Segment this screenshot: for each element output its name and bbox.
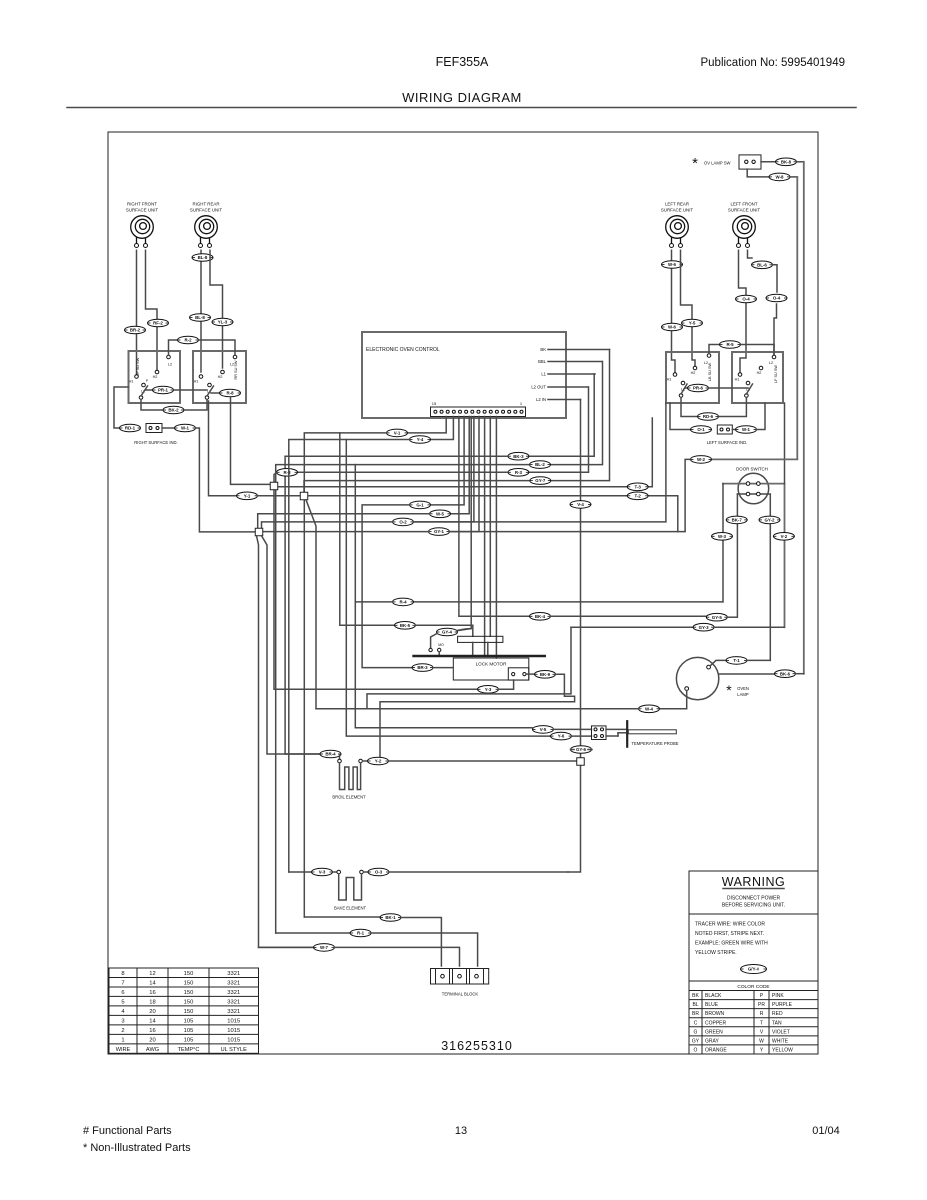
color code divider xyxy=(689,990,818,992)
svg-text:PR-1: PR-1 xyxy=(158,388,169,393)
svg-text:TERMINAL BLOCK: TERMINAL BLOCK xyxy=(442,992,479,997)
svg-text:OVEN: OVEN xyxy=(737,686,749,691)
lf surface switch box xyxy=(732,352,783,403)
wire lock run end xyxy=(728,616,737,618)
svg-text:W-6: W-6 xyxy=(668,262,677,267)
connector V-4 on L2 IN bus xyxy=(570,501,591,509)
wire rf h2 with jog xyxy=(146,250,158,370)
wire oven lamp switch lower to connector W-8 xyxy=(747,169,769,177)
wire bake feed left from V289 xyxy=(289,871,311,873)
svg-text:RD-1: RD-1 xyxy=(125,426,136,431)
connector W-2 run from right bus xyxy=(712,458,797,460)
wire node A right run to T-3 oval xyxy=(278,486,627,488)
connector BK-9 right of motor box xyxy=(535,671,556,679)
rr switch terminals xyxy=(199,375,203,379)
connector RD-1 right surface indicator xyxy=(120,424,141,432)
svg-text:SURFACE UNIT: SURFACE UNIT xyxy=(728,208,761,213)
wire door switch lower contact row to buses xyxy=(737,494,770,660)
svg-text:WARNING: WARNING xyxy=(722,875,785,889)
svg-text:GREEN: GREEN xyxy=(705,1029,723,1035)
svg-text:150: 150 xyxy=(184,999,194,1005)
temperature probe stem xyxy=(628,730,676,734)
svg-text:T-2: T-2 xyxy=(635,493,642,498)
lock motor switch inner box xyxy=(508,668,529,680)
connector W-1 right surface indicator xyxy=(162,427,174,429)
svg-text:Y-5: Y-5 xyxy=(689,321,696,326)
svg-text:BROIL ELEMENT: BROIL ELEMENT xyxy=(332,795,366,800)
svg-text:G/Y-#: G/Y-# xyxy=(748,967,760,972)
connector PR-1 between switch P terminals xyxy=(145,389,152,391)
wire y-1 to node B xyxy=(258,495,301,497)
svg-text:GY-1: GY-1 xyxy=(434,529,445,534)
wire BK run to node B xyxy=(304,481,529,492)
svg-text:13: 13 xyxy=(455,1125,467,1137)
connector BK-3 on L1 run xyxy=(508,452,529,460)
svg-text:RIGHT SURFACE IND.: RIGHT SURFACE IND. xyxy=(134,440,177,445)
svg-text:16: 16 xyxy=(149,1028,155,1034)
connector GY-1 mid run xyxy=(429,528,450,536)
svg-text:COLOR CODE: COLOR CODE xyxy=(737,984,769,990)
svg-text:BLUE: BLUE xyxy=(705,1002,719,1008)
svg-text:EXAMPLE: GREEN WIRE WITH: EXAMPLE: GREEN WIRE WITH xyxy=(695,941,768,947)
svg-text:MO: MO xyxy=(438,643,444,647)
svg-text:BR: BR xyxy=(692,1011,699,1017)
svg-text:12: 12 xyxy=(149,971,155,977)
wire rr L1 down to node row xyxy=(209,401,237,496)
svg-text:SURFACE UNIT: SURFACE UNIT xyxy=(190,208,223,213)
wire gy-4 diagonal to eoc t11 xyxy=(457,629,471,631)
svg-text:BEFORE SERVICING UNIT.: BEFORE SERVICING UNIT. xyxy=(722,903,785,909)
connector BL-8 on rr h1 wire xyxy=(192,254,213,262)
connector V-2 on V784 xyxy=(773,533,794,541)
svg-text:BL-8: BL-8 xyxy=(198,255,208,260)
connector BK-5 lock motor left run xyxy=(395,622,416,630)
wire bk-5 to cam drop xyxy=(416,625,473,636)
wire w-2 left end down to gy-1 run xyxy=(685,459,690,531)
wire lock wrap upper xyxy=(367,627,571,709)
wire lb L2 to lf L2 via connector R-5 xyxy=(709,345,719,354)
svg-text:RED: RED xyxy=(772,1011,783,1017)
wire w-1 to node down xyxy=(196,428,256,532)
connector R-3 on L2 OUT run xyxy=(508,469,529,477)
connector G-1 mid run xyxy=(410,501,431,509)
wire node C left pair down to broil and terminal row xyxy=(257,536,315,948)
diagram border xyxy=(108,132,818,1054)
oven lamp switch terminals xyxy=(745,160,748,163)
connector W-7 on y947 run xyxy=(314,944,335,952)
wire bake right terminal to connector O-3 xyxy=(364,871,368,873)
svg-text:*: * xyxy=(726,682,732,698)
svg-text:SURFACE UNIT: SURFACE UNIT xyxy=(126,208,159,213)
oven lamp body xyxy=(676,657,718,699)
svg-text:R-3: R-3 xyxy=(515,470,523,475)
svg-text:NOTED FIRST, STRIPE NEXT.: NOTED FIRST, STRIPE NEXT. xyxy=(695,931,764,937)
svg-text:L2 IN: L2 IN xyxy=(536,397,546,402)
svg-text:316255310: 316255310 xyxy=(441,1039,513,1053)
wire L2 OUT run middle segment xyxy=(298,471,508,473)
wire eoc t4 down to G-1 run xyxy=(431,417,464,505)
wire y-3 to motor box bottom xyxy=(499,680,514,689)
node B junction square xyxy=(300,492,308,500)
wire probe run upper to box xyxy=(554,728,592,730)
wire G-1 run left and down V362 to motor feed xyxy=(362,505,412,668)
svg-text:# Functional Parts: # Functional Parts xyxy=(83,1125,172,1137)
svg-text:DISCONNECT POWER: DISCONNECT POWER xyxy=(727,896,781,902)
svg-text:BK-2: BK-2 xyxy=(168,408,179,413)
connector O-4 on lf wire xyxy=(736,295,757,303)
bake element terminals xyxy=(337,870,341,874)
wire lock motor run V340 xyxy=(340,433,394,625)
svg-text:1015: 1015 xyxy=(227,1028,240,1034)
wire run y947 from node C wire xyxy=(259,946,315,948)
svg-text:OV LAMP SW: OV LAMP SW xyxy=(704,161,730,166)
lock motor box xyxy=(453,658,529,680)
wire W-5 run to node C xyxy=(258,514,430,528)
svg-text:C: C xyxy=(694,1020,698,1026)
wire r-8 down to node xyxy=(231,397,271,485)
wire lf right terminal jog to connector BL-6 xyxy=(748,250,753,258)
wire motor switch to connector BK-9 xyxy=(526,673,535,675)
svg-text:L2 OUT: L2 OUT xyxy=(531,385,546,390)
svg-text:BLACK: BLACK xyxy=(705,993,722,999)
connector BK-4 on lock run xyxy=(530,613,551,621)
wire Y-4 run to staircase V289 xyxy=(289,440,410,873)
svg-text:R-3: R-3 xyxy=(283,470,291,475)
svg-text:150: 150 xyxy=(184,1009,194,1015)
svg-text:T: T xyxy=(760,1020,763,1026)
connector Y-3 below motor xyxy=(478,686,499,694)
svg-text:UL STYLE: UL STYLE xyxy=(221,1047,247,1053)
connector R-1 on y933 run xyxy=(350,929,371,937)
wire eoc t3 down to lock run right xyxy=(459,417,530,617)
svg-text:BR-4: BR-4 xyxy=(325,752,336,757)
door switch body xyxy=(738,473,769,504)
wire oven lamp right to connector BK-6 xyxy=(719,673,774,675)
svg-text:1015: 1015 xyxy=(227,1037,240,1043)
node A junction square xyxy=(270,482,278,490)
connector GY-5 on lock run xyxy=(706,613,727,621)
wire run y917 from V304 xyxy=(304,916,380,918)
connector R-3b on L2 OUT run xyxy=(277,469,298,477)
wire BBL run to staircase V276 xyxy=(276,465,529,933)
wire gauge table grid xyxy=(109,968,259,1053)
svg-text:O-4: O-4 xyxy=(773,296,781,301)
wire L2 OUT bus down and left xyxy=(530,387,589,472)
wire left ind up to LF box xyxy=(757,403,766,430)
svg-text:W-8: W-8 xyxy=(776,175,785,180)
wire rf P left and down to indicator xyxy=(114,387,129,428)
svg-text:BL: BL xyxy=(692,1002,698,1008)
svg-text:W-6: W-6 xyxy=(668,325,677,330)
svg-text:16: 16 xyxy=(149,990,155,996)
bake element coil xyxy=(339,874,362,900)
lf switch terminals xyxy=(738,373,742,377)
wire GY-1 run right segment to W-2 drop xyxy=(450,531,686,533)
wire connector W-8 to right bus xyxy=(790,176,797,178)
connector Y-4 left of eoc xyxy=(410,436,431,444)
eoc terminal strip pin circles xyxy=(434,410,437,413)
connector W-5 mid run xyxy=(430,510,451,518)
wire br-3 right to motor box xyxy=(433,667,453,669)
svg-text:L1: L1 xyxy=(541,372,546,377)
wire rf h1 vertical xyxy=(136,250,138,374)
svg-text:3321: 3321 xyxy=(227,980,240,986)
wire node C right pair down to broil row xyxy=(262,536,321,754)
svg-text:BROWN: BROWN xyxy=(705,1011,725,1017)
svg-text:RD-6: RD-6 xyxy=(703,414,714,419)
connector BR-3 motor left xyxy=(412,664,433,672)
svg-text:Y-6: Y-6 xyxy=(558,734,565,739)
svg-text:PR-6: PR-6 xyxy=(693,386,704,391)
warning divider 1 xyxy=(689,913,818,915)
svg-text:3: 3 xyxy=(121,1018,124,1024)
svg-text:YELLOW STRIPE.: YELLOW STRIPE. xyxy=(695,950,737,956)
right rear surface unit coil xyxy=(195,216,218,244)
svg-text:LEFT FRONT: LEFT FRONT xyxy=(731,202,758,207)
wire eoc t6 down to O-2 run xyxy=(414,417,474,522)
wire L2 IN below node to bake row xyxy=(568,766,581,873)
svg-text:3321: 3321 xyxy=(227,971,240,977)
svg-text:Y-1: Y-1 xyxy=(244,493,251,498)
electronic oven control box xyxy=(362,332,566,418)
wire o-4b down to lf L2 xyxy=(774,304,777,355)
connector W-6b on lr h1 wire xyxy=(662,323,683,331)
lf switch lever xyxy=(746,384,752,394)
svg-text:15: 15 xyxy=(432,401,437,406)
rf switch lever xyxy=(141,386,148,396)
wire probe box to bar xyxy=(606,728,626,730)
connector BK-7 on V737 xyxy=(726,516,747,524)
rr surface switch box xyxy=(193,351,246,403)
lock motor terminals xyxy=(429,648,432,651)
wire node B right run to T-2 oval xyxy=(308,495,627,497)
svg-text:BK-3: BK-3 xyxy=(513,454,524,459)
terminal block body xyxy=(431,969,489,985)
connector Y-2 broil right xyxy=(368,757,389,765)
svg-text:W-2: W-2 xyxy=(697,457,706,462)
connector GY-7 on BK run xyxy=(530,477,551,485)
lock motor bar thick xyxy=(412,655,546,658)
svg-text:RF SU SW: RF SU SW xyxy=(136,357,140,376)
connector O-1 left surface indicator xyxy=(691,426,712,434)
wire eoc t5 down to W-5 run xyxy=(451,417,469,514)
connector O-4b on lf L2 wire xyxy=(766,294,787,302)
svg-text:LOCK MOTOR: LOCK MOTOR xyxy=(476,662,507,667)
wire lr h1 vertical xyxy=(672,250,676,372)
svg-text:TEMP°C: TEMP°C xyxy=(178,1047,200,1053)
door switch terminals xyxy=(746,482,750,486)
svg-text:105: 105 xyxy=(184,1028,194,1034)
broil element coil xyxy=(340,763,361,790)
svg-text:H2: H2 xyxy=(757,371,762,375)
left rear surface unit coil xyxy=(666,216,689,244)
svg-text:R-8: R-8 xyxy=(226,391,234,396)
svg-text:GY-5: GY-5 xyxy=(712,615,723,620)
svg-text:R-2: R-2 xyxy=(184,338,192,343)
rr switch lever xyxy=(207,386,214,396)
svg-text:150: 150 xyxy=(184,980,194,986)
wire O-2 run right segment to LB box xyxy=(414,403,666,522)
wire rf L1 to rr L1 via connector BK-2 xyxy=(141,400,162,411)
wire lower-left door bus run y602 xyxy=(414,601,723,603)
connector RF-2 on rf h2 wire xyxy=(148,319,169,327)
wire y627 run to V784 xyxy=(714,626,784,628)
wire o-3 to center bus xyxy=(389,871,568,873)
oven lamp terminals xyxy=(707,665,711,669)
connector V-5 on probe run upper xyxy=(533,726,554,734)
svg-text:RR SU SW: RR SU SW xyxy=(234,360,238,379)
connector GY-2 on V769 xyxy=(759,516,780,524)
connector T-1 xyxy=(726,657,747,665)
svg-text:TAN: TAN xyxy=(772,1020,782,1026)
connector W-3 on V723 xyxy=(712,533,733,541)
svg-text:105: 105 xyxy=(184,1037,194,1043)
wire y933 to tb drop xyxy=(371,933,478,966)
wire eoc t10 down to motor box xyxy=(495,417,497,659)
connector PR-6 between lb switch terminals xyxy=(685,387,688,389)
warning box border xyxy=(689,871,818,1054)
connector BR-4 broil left xyxy=(320,750,341,758)
connector W-4 oven lamp return xyxy=(639,705,660,713)
svg-text:W-1: W-1 xyxy=(742,427,751,432)
color code table xyxy=(689,999,818,1001)
right bus wire from lamp switch W-8 down to W-2 run xyxy=(796,177,798,459)
svg-text:150: 150 xyxy=(184,990,194,996)
tracer example connector G/Y-# xyxy=(741,965,767,974)
svg-text:LAMP: LAMP xyxy=(737,692,749,697)
svg-text:6: 6 xyxy=(121,990,124,996)
svg-text:105: 105 xyxy=(184,1018,194,1024)
svg-text:O-1: O-1 xyxy=(697,427,705,432)
svg-text:G: G xyxy=(694,1029,698,1035)
svg-text:14: 14 xyxy=(149,1018,156,1024)
rf switch terminals xyxy=(135,375,139,379)
svg-text:H2: H2 xyxy=(153,375,158,379)
wire node A run corner up xyxy=(649,418,653,487)
wire w-4 run left to V316 xyxy=(316,708,639,710)
temperature probe bar xyxy=(626,720,628,748)
svg-text:DOOR SWITCH: DOOR SWITCH xyxy=(736,467,768,472)
svg-text:LF SU SW: LF SU SW xyxy=(774,365,778,383)
svg-text:LEFT REAR: LEFT REAR xyxy=(665,202,689,207)
svg-text:H1: H1 xyxy=(735,378,740,382)
svg-text:V-2: V-2 xyxy=(781,534,788,539)
svg-text:BK-8: BK-8 xyxy=(781,159,792,164)
svg-text:V-1: V-1 xyxy=(394,431,401,436)
svg-text:R-5: R-5 xyxy=(726,342,734,347)
svg-text:3321: 3321 xyxy=(227,999,240,1005)
terminal block screws xyxy=(441,974,445,978)
svg-text:LB SU SW: LB SU SW xyxy=(708,363,712,382)
connector Y-1 on rr L1 run xyxy=(237,492,258,500)
connector O-2 mid run xyxy=(393,518,414,526)
svg-text:FEF355A: FEF355A xyxy=(436,55,489,69)
svg-text:RIGHT REAR: RIGHT REAR xyxy=(193,202,220,207)
svg-text:COPPER: COPPER xyxy=(705,1020,727,1026)
svg-text:GY-4: GY-4 xyxy=(442,630,453,635)
svg-text:R: R xyxy=(760,1011,764,1017)
wire eoc t9 down to motor cam xyxy=(489,417,491,637)
svg-text:ORANGE: ORANGE xyxy=(705,1047,727,1053)
svg-text:150: 150 xyxy=(184,971,194,977)
svg-text:WHITE: WHITE xyxy=(772,1038,789,1044)
rf surface switch box xyxy=(129,351,181,403)
wire probe lower to box xyxy=(572,735,592,737)
wire GY-1 run to node C xyxy=(263,531,429,533)
connector BR-2 on rf h1 wire xyxy=(125,326,146,334)
wire motor terminal 2 to bar xyxy=(438,652,440,655)
connector BK-1 on y917 run xyxy=(380,914,401,922)
wire lock run y627 to door branch xyxy=(571,626,693,628)
svg-text:H2: H2 xyxy=(691,371,696,375)
svg-text:L2: L2 xyxy=(769,361,773,365)
wire temp probe upper V355 xyxy=(355,465,532,728)
broil element terminals xyxy=(338,759,342,763)
svg-text:O-3: O-3 xyxy=(375,870,383,875)
connector W-6 on lr h1 wire xyxy=(662,261,683,269)
wire broil feed left xyxy=(285,753,320,755)
svg-text:YELLOW: YELLOW xyxy=(772,1047,793,1053)
svg-text:SURFACE UNIT: SURFACE UNIT xyxy=(661,208,694,213)
warning divider 2 xyxy=(689,980,818,982)
title underline xyxy=(67,107,856,109)
connector GY-6 below probe run xyxy=(571,746,592,754)
node C junction square xyxy=(255,528,263,536)
connector W-8 xyxy=(769,173,790,181)
svg-text:BL-6: BL-6 xyxy=(757,262,767,267)
svg-text:PINK: PINK xyxy=(772,993,784,999)
svg-text:V-4: V-4 xyxy=(577,502,584,507)
svg-text:8: 8 xyxy=(121,971,124,977)
wire eoc t7 down to GY-1 run xyxy=(450,417,479,532)
wire rr h1 vertical xyxy=(200,250,202,372)
wire temp probe run V346 xyxy=(346,440,550,737)
svg-text:20: 20 xyxy=(149,1037,155,1043)
svg-text:W-4: W-4 xyxy=(645,706,654,711)
wire bk-9 wrap around xyxy=(380,674,575,757)
wire lb L1 to lf L1 via connector RD-6 xyxy=(681,398,697,417)
wire eoc t11 down to oval-b diagonal xyxy=(458,417,471,631)
temperature probe connector box xyxy=(592,726,607,740)
svg-text:RIGHT FRONT: RIGHT FRONT xyxy=(127,202,157,207)
wire oven lamp switch to connector BK-8 xyxy=(761,161,776,163)
connector T-3 on node A run xyxy=(627,483,648,491)
wire oven lamp top terminal to connector T-1 xyxy=(710,660,726,665)
svg-text:W: W xyxy=(759,1038,764,1044)
wire L2 IN long center bus down xyxy=(580,400,582,758)
lb switch terminals xyxy=(673,373,677,377)
wire node A down to lock motor left xyxy=(274,490,478,690)
svg-text:BR-3: BR-3 xyxy=(417,665,428,670)
wire y917 to tb drop xyxy=(401,918,441,967)
svg-text:W-5: W-5 xyxy=(436,511,445,516)
wire gy-6 short leads xyxy=(571,749,575,751)
svg-text:1015: 1015 xyxy=(227,1018,240,1024)
connector Y-6 on probe run lower xyxy=(551,732,572,740)
lb switch lever xyxy=(681,384,687,394)
eoc terminal strip xyxy=(431,407,526,417)
wire L1 run to staircase V285 xyxy=(285,456,507,754)
wire rf L2 to rr L2 via connector R-2 xyxy=(169,340,178,355)
right bus wire from lamp switch BK-8 down to oven lamp xyxy=(803,162,805,674)
connector YL-3 on rr h2 wire xyxy=(212,318,233,326)
svg-text:V-3: V-3 xyxy=(319,870,326,875)
svg-text:3321: 3321 xyxy=(227,990,240,996)
wire node B diagonal to V316 xyxy=(306,500,316,709)
svg-text:BK-1: BK-1 xyxy=(385,915,396,920)
connector BL-2 on BBL run xyxy=(530,461,551,469)
svg-text:V-5: V-5 xyxy=(540,727,547,732)
